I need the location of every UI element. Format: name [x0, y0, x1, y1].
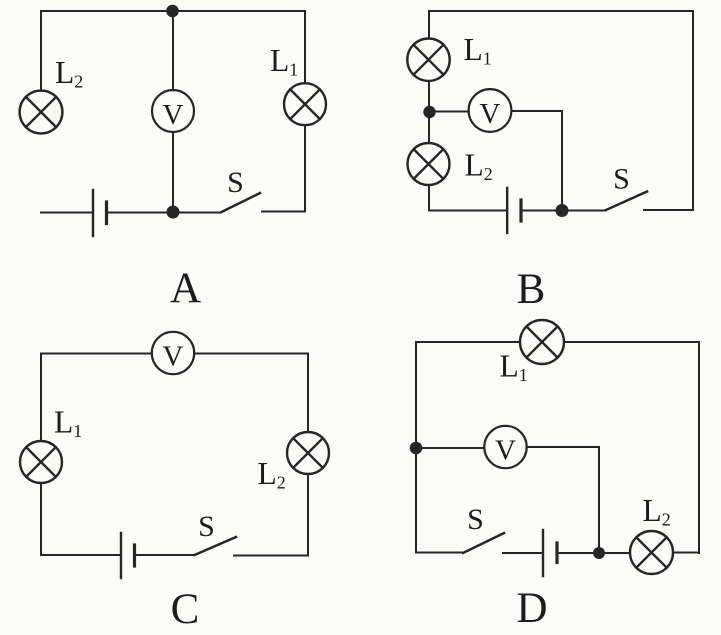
wire D right vertical: [698, 342, 700, 553]
lamp L1 (circuit A): [284, 83, 326, 125]
wire B voltmeter to right branch: [512, 111, 563, 204]
wire B top: [429, 10, 693, 12]
wire C left lower: [40, 483, 42, 555]
wire B right vertical: [692, 11, 694, 210]
wire C battery to switch: [137, 554, 195, 556]
wire B junction to voltmeter: [436, 111, 469, 113]
svg-text:L2: L2: [465, 148, 493, 185]
switch S (circuit D): [463, 533, 504, 553]
wire B battery to junction: [523, 210, 556, 212]
svg-text:L2: L2: [643, 493, 671, 530]
svg-text:L2: L2: [55, 55, 83, 92]
wire A bottom right: [262, 211, 305, 213]
node D left junction: [410, 442, 423, 455]
node D bottom junction: [593, 547, 605, 559]
wire A top: [41, 10, 305, 12]
wire A left upper: [40, 11, 42, 91]
wire C top right: [194, 353, 308, 355]
node A top junction: [166, 5, 179, 18]
svg-text:D: D: [516, 585, 547, 632]
wire B bottom right: [644, 209, 693, 211]
battery BT1 (circuit C): [121, 533, 135, 578]
wire D voltmeter to right branch: [527, 447, 599, 547]
svg-text:L1: L1: [54, 405, 82, 442]
wire A middle upper: [172, 11, 174, 90]
svg-text:S: S: [613, 163, 630, 196]
wire B left middle: [428, 81, 430, 143]
battery BT1 (circuit A): [93, 190, 107, 236]
wire D left vertical: [415, 342, 417, 553]
wire D junction to voltmeter: [422, 447, 484, 449]
wire D switch to battery: [503, 552, 542, 554]
lamp L2 (circuit B): [408, 143, 450, 185]
wire C right lower: [307, 474, 309, 555]
voltmeter U1 (circuit A): [152, 90, 194, 132]
wire A middle lower: [172, 132, 174, 212]
wire C right upper: [307, 354, 309, 433]
wire D lamp to right: [673, 552, 699, 554]
lamp L1 (circuit D): [520, 320, 564, 364]
svg-text:A: A: [170, 265, 201, 312]
lamp L1 (circuit B): [407, 39, 449, 81]
node B left junction: [423, 106, 435, 118]
wire A bottom middle: [109, 212, 222, 214]
wire C bottom left: [41, 554, 120, 556]
svg-text:V: V: [480, 98, 501, 130]
wire D top right: [564, 341, 699, 343]
wire B left lower: [428, 185, 430, 211]
switch S (circuit C): [195, 537, 237, 555]
lamp L1 (circuit C): [20, 441, 62, 483]
svg-text:V: V: [495, 435, 516, 467]
svg-text:S: S: [467, 503, 484, 536]
svg-text:L1: L1: [464, 32, 492, 69]
battery BT1 (circuit D): [543, 530, 557, 576]
voltmeter U1 (circuit B): [469, 89, 512, 132]
svg-text:V: V: [163, 341, 184, 373]
battery BT1 (circuit B): [507, 188, 521, 233]
wire B bottom left: [429, 210, 506, 212]
node B bottom junction: [556, 204, 569, 217]
wire D battery to junction: [559, 552, 593, 554]
wire A bottom left: [41, 212, 92, 214]
wire A right lower: [304, 125, 306, 211]
switch S (circuit B): [606, 192, 647, 211]
svg-text:B: B: [517, 266, 546, 313]
voltmeter U1 (circuit D): [484, 426, 526, 468]
wire B left upper: [428, 11, 430, 39]
svg-text:L2: L2: [258, 456, 286, 493]
svg-text:S: S: [198, 510, 215, 543]
wire D top left: [416, 341, 520, 343]
wire D bottom left: [416, 552, 463, 554]
lamp L2 (circuit C): [287, 432, 329, 474]
wire A right upper: [304, 11, 306, 83]
node A bottom junction: [167, 206, 180, 219]
switch S (circuit A): [222, 193, 261, 212]
wire C top left: [41, 353, 152, 355]
lamp L2 (circuit A): [20, 91, 63, 134]
svg-text:L1: L1: [270, 43, 298, 80]
svg-text:V: V: [163, 99, 184, 131]
wire D junction to lamp: [605, 552, 630, 554]
lamp L2 (circuit D): [630, 531, 673, 574]
svg-text:S: S: [227, 166, 244, 199]
svg-text:C: C: [171, 586, 200, 633]
wire C left upper: [40, 354, 42, 442]
wire C bottom right: [234, 555, 308, 557]
wire B junction to switch: [569, 210, 606, 212]
voltmeter U1 (circuit C): [152, 332, 194, 374]
